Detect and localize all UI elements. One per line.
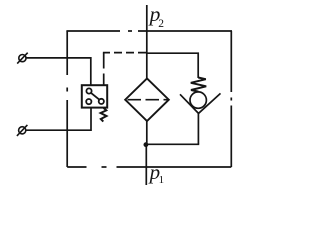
pressure switch contact circle bottom-right	[99, 99, 104, 104]
terminal Ø upper slash	[17, 53, 28, 64]
wire: p1 line down through border	[145, 145, 147, 186]
check valve spring	[191, 78, 206, 92]
enclosure border right (dash-dot)	[230, 31, 232, 167]
terminal Ø lower circle	[19, 127, 26, 134]
wire: branch to check valve	[147, 53, 198, 78]
check valve ball (circle)	[190, 92, 206, 108]
wire: check valve to bottom line	[197, 113, 199, 144]
terminal Ø lower slash	[17, 125, 28, 136]
enclosure border bottom (dash-dot)	[67, 166, 231, 168]
wire: bottom horizontal to junction	[146, 143, 199, 145]
filter F (diamond)	[125, 78, 169, 121]
check valve seat (V)	[180, 93, 221, 113]
junction dot	[144, 142, 149, 147]
wire: lower electrical lead	[26, 108, 91, 131]
label p1	[148, 160, 165, 186]
terminal Ø upper circle	[19, 55, 26, 62]
svg-text:2: 2	[158, 18, 164, 30]
pressure switch return spring	[101, 108, 107, 122]
enclosure border top (dash-dot)	[66, 30, 232, 32]
pressure switch contact circle bottom-left	[86, 99, 91, 104]
filter element (dashed diagonal)	[128, 99, 168, 101]
wire: upper electrical lead	[26, 58, 91, 85]
label p2	[148, 2, 165, 30]
pressure switch contact circle top-left	[86, 88, 91, 93]
enclosure border left (dash-dot)	[66, 31, 68, 167]
wire: p2 supply line vertical	[146, 5, 148, 79]
pilot line (dashed) to pressure switch	[103, 52, 146, 54]
pressure switch box	[82, 85, 107, 107]
svg-text:1: 1	[159, 174, 165, 186]
pressure switch contact arm	[91, 93, 99, 100]
wire: filter to junction	[146, 121, 148, 145]
